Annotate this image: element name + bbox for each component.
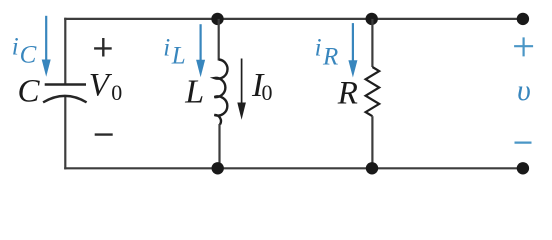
capacitor C top plate xyxy=(45,83,86,85)
wire inductor branch lower xyxy=(218,124,220,168)
arrow i_R blue xyxy=(352,23,354,63)
wire inductor branch upper xyxy=(218,19,220,61)
wire resistor branch lower xyxy=(371,116,373,168)
svg-text:L: L xyxy=(184,73,204,110)
svg-text:C: C xyxy=(20,42,37,69)
terminal dot bottom right xyxy=(517,162,529,174)
plus sign v blue xyxy=(514,37,533,56)
svg-text:υ: υ xyxy=(517,74,531,107)
arrow i_L blue xyxy=(200,24,202,62)
wire top horizontal xyxy=(64,18,523,20)
svg-text:V: V xyxy=(89,68,113,104)
minus sign V0 xyxy=(95,133,113,135)
svg-text:R: R xyxy=(337,75,358,111)
node dot bottom (inductor branch) xyxy=(212,162,224,174)
svg-text:R: R xyxy=(322,44,338,71)
wire left vertical lower (from capacitor) xyxy=(64,97,66,170)
node dot top (resistor branch) xyxy=(366,13,378,25)
plus sign V0 xyxy=(94,38,112,57)
terminal dot top right xyxy=(517,13,529,25)
wire resistor branch upper xyxy=(371,19,373,67)
svg-text:0: 0 xyxy=(262,80,273,105)
svg-text:i: i xyxy=(12,33,19,60)
node dot top (inductor branch) xyxy=(211,13,223,25)
node dot bottom (resistor branch) xyxy=(366,162,378,174)
inductor L coil xyxy=(214,60,227,125)
capacitor C curved bottom plate xyxy=(43,96,87,103)
arrow I0 black xyxy=(241,59,243,106)
resistor R zigzag xyxy=(366,67,380,116)
wire bottom horizontal xyxy=(64,167,523,169)
svg-text:i: i xyxy=(163,35,170,62)
arrow i_C blue xyxy=(45,16,47,62)
svg-text:L: L xyxy=(171,43,186,70)
svg-text:C: C xyxy=(18,74,41,110)
svg-text:i: i xyxy=(315,34,322,61)
wire left vertical upper (to capacitor) xyxy=(64,18,66,85)
svg-text:0: 0 xyxy=(111,80,122,105)
minus sign v blue xyxy=(515,142,532,144)
